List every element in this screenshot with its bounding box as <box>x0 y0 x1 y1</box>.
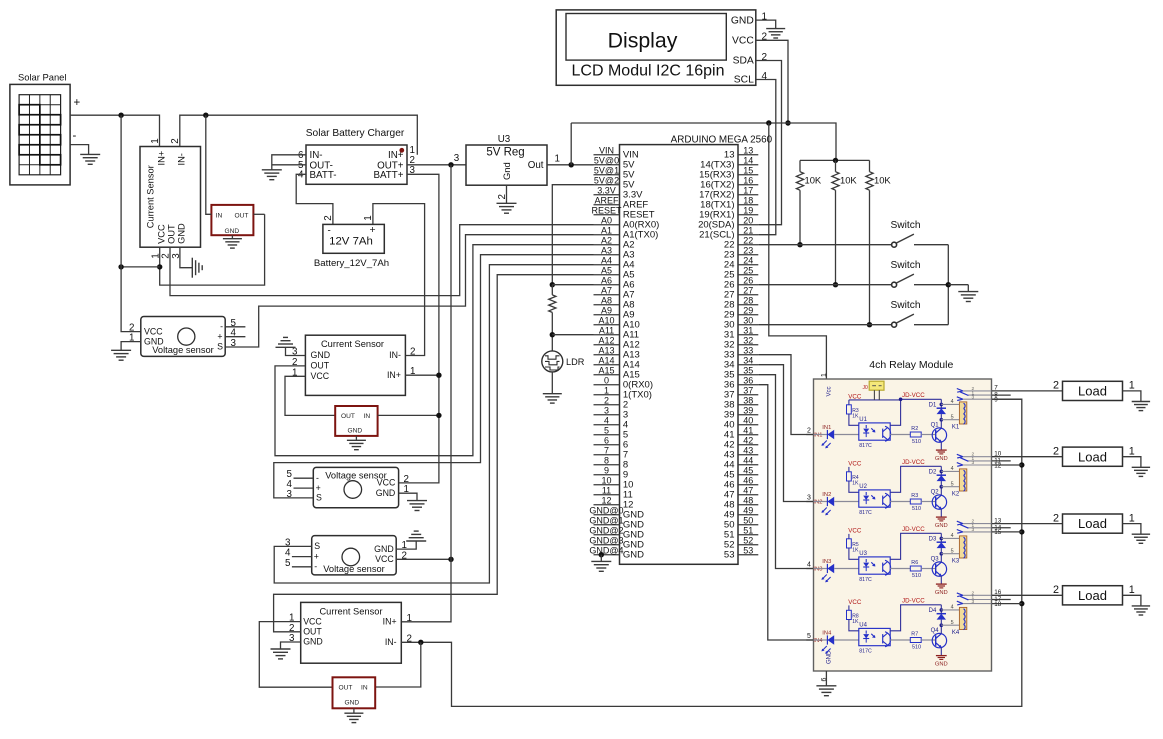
ground load3 <box>1132 533 1150 535</box>
diode D1 <box>929 403 946 420</box>
svg-text:Display: Display <box>608 28 678 52</box>
svg-text:A7: A7 <box>601 285 612 295</box>
wire 5V to relay module Vcc <box>769 123 827 379</box>
pin 5 (arduino left) <box>594 434 620 436</box>
wire pin34 to relay IN2 <box>758 365 813 502</box>
wire divider top to resistor <box>551 285 553 295</box>
svg-text:GND: GND <box>623 550 644 561</box>
svg-text:A15: A15 <box>598 365 614 375</box>
wire pin33 to relay IN1 <box>758 355 813 435</box>
svg-text:8: 8 <box>604 455 609 465</box>
pin 43 (arduino right) <box>738 454 758 456</box>
svg-text:5: 5 <box>285 558 291 569</box>
node rail to shunt-bridge IN <box>203 113 208 118</box>
pin 42 (arduino right) <box>738 444 758 446</box>
svg-text:10: 10 <box>601 475 611 485</box>
relay coil K4 <box>952 607 967 636</box>
svg-text:2: 2 <box>410 347 415 358</box>
wire CS1 OUT to A0 <box>170 225 594 296</box>
svg-text:510: 510 <box>912 644 921 650</box>
svg-text:+: + <box>370 225 376 236</box>
pin stub VS3 5 <box>292 566 312 568</box>
wire CS2 GND to inverted ground <box>286 347 306 355</box>
node switch rail <box>946 282 951 287</box>
pin stub VS3 4 <box>292 556 312 558</box>
svg-text:Switch: Switch <box>890 260 920 271</box>
svg-text:Q3: Q3 <box>931 556 940 562</box>
svg-text:26: 26 <box>743 275 753 285</box>
svg-text:VIN: VIN <box>599 145 614 155</box>
pin GND@0 (arduino left) <box>594 514 620 516</box>
pin GND@2 (arduino left) <box>594 534 620 536</box>
svg-text:1: 1 <box>821 373 828 377</box>
pin 12 (arduino left) <box>594 504 620 506</box>
svg-text:BATT+: BATT+ <box>373 170 403 181</box>
svg-text:39: 39 <box>743 405 753 415</box>
wire VS1 VCC tap <box>121 266 160 268</box>
svg-text:18: 18 <box>994 601 1002 608</box>
node reg out 5V <box>569 162 574 167</box>
relay K2 contact set <box>957 452 992 467</box>
svg-text:GND: GND <box>731 15 754 26</box>
svg-text:JD-VCC: JD-VCC <box>902 459 925 466</box>
svg-text:1K: 1K <box>852 548 859 554</box>
svg-text:3.3V: 3.3V <box>597 185 616 195</box>
svg-text:2: 2 <box>1053 446 1059 458</box>
node charger OUT+ / reg input <box>448 162 453 167</box>
node coil pin4 junction <box>940 537 944 541</box>
ground arduino <box>591 560 611 562</box>
svg-text:GND: GND <box>935 523 948 529</box>
pin 34 (arduino right) <box>738 364 758 366</box>
node ground bus relay K2 contact <box>1019 462 1024 467</box>
wire coil pin 5 <box>941 553 959 555</box>
pin 3.3V (arduino left) <box>594 194 620 196</box>
svg-text:IN4: IN4 <box>813 638 823 644</box>
wire VS3 GND to inverted ground <box>396 541 416 549</box>
resistor R4 1K <box>847 467 860 487</box>
wire display SCL to pin21 <box>756 80 776 235</box>
wire VS2 GND to ground <box>399 493 417 500</box>
svg-text:U1: U1 <box>859 417 867 423</box>
node ground bus relay K3 contact <box>1019 529 1024 534</box>
svg-text:IN: IN <box>361 685 368 692</box>
svg-text:A10: A10 <box>598 315 614 325</box>
svg-text:IN2: IN2 <box>813 499 822 505</box>
svg-text:IN1: IN1 <box>813 432 822 438</box>
svg-text:12V 7Ah: 12V 7Ah <box>329 236 373 248</box>
wire R5 to optocoupler <box>849 548 859 559</box>
svg-text:38: 38 <box>743 395 753 405</box>
pin 31 (arduino right) <box>738 334 758 336</box>
svg-text:29: 29 <box>743 305 753 315</box>
node JD-VCC jumper <box>899 398 903 402</box>
svg-text:GND: GND <box>348 427 363 434</box>
optocoupler U4 817C <box>859 623 891 655</box>
svg-text:5: 5 <box>604 425 609 435</box>
svg-text:47: 47 <box>743 485 753 495</box>
transistor Q3 <box>931 556 947 576</box>
wire charger BATT+ riser to VS2 VCC <box>399 174 439 483</box>
voltage sensor U-VS3 (load) <box>312 536 397 575</box>
pin 51 (arduino right) <box>738 534 758 536</box>
svg-text:GND: GND <box>225 228 240 235</box>
svg-text:13: 13 <box>743 145 753 155</box>
pin A8 (arduino left) <box>594 304 620 306</box>
svg-text:510: 510 <box>912 506 921 512</box>
svg-text:5V Reg: 5V Reg <box>486 147 524 159</box>
svg-text:IN-: IN- <box>385 637 397 647</box>
pin GND@1 (arduino left) <box>594 524 620 526</box>
node R2 to pin wire <box>833 282 838 287</box>
svg-text:JD-VCC: JD-VCC <box>902 598 925 605</box>
pin 4 (arduino left) <box>594 424 620 426</box>
relay coil K1 <box>952 402 967 431</box>
pin stub VS2 4 <box>294 487 314 489</box>
svg-text:U3: U3 <box>498 134 511 145</box>
svg-text:3: 3 <box>807 495 811 502</box>
svg-text:GND@3: GND@3 <box>589 535 623 545</box>
svg-text:GND@0: GND@0 <box>589 505 623 515</box>
svg-text:K4: K4 <box>952 630 960 636</box>
ground LDR <box>543 393 562 395</box>
svg-text:15: 15 <box>743 165 753 175</box>
svg-text:GND: GND <box>345 700 360 707</box>
ground BR1 <box>223 238 242 240</box>
svg-text:IN+: IN+ <box>383 617 397 627</box>
svg-text:A3: A3 <box>601 245 612 255</box>
svg-text:D4: D4 <box>929 608 937 614</box>
svg-text:GND@4: GND@4 <box>589 545 623 555</box>
svg-text:IN+: IN+ <box>156 151 166 166</box>
ground load4 <box>1132 605 1150 607</box>
optocoupler U3 817C <box>859 551 891 583</box>
svg-text:2: 2 <box>170 138 181 143</box>
led IN1 indicator <box>814 425 859 449</box>
voltage sensor U-VS2 (battery) <box>313 467 398 507</box>
node coil pin5 junction <box>940 623 944 627</box>
pin A0 (arduino left) <box>594 224 620 226</box>
wire optocoupler out to R7 <box>890 639 910 641</box>
wire coil pin 5 <box>941 419 959 421</box>
svg-text:Q2: Q2 <box>931 489 940 495</box>
wire pullup rail <box>800 159 870 161</box>
svg-text:52: 52 <box>743 535 753 545</box>
svg-text:20: 20 <box>743 215 753 225</box>
svg-text:K3: K3 <box>952 559 960 565</box>
ground relay module <box>816 685 836 687</box>
svg-text:Load: Load <box>1078 384 1107 399</box>
node display VCC on 5V rail <box>785 120 790 125</box>
wire reg-input riser to CS4 IN+ <box>401 165 451 622</box>
wire optocoupler to JD-VCC rail <box>890 399 941 425</box>
resistor R-LDR <box>549 295 556 313</box>
pin 22 (arduino right) <box>738 244 758 246</box>
wire R8 to optocoupler <box>849 620 859 631</box>
svg-text:41: 41 <box>743 425 753 435</box>
svg-text:OUT: OUT <box>167 224 177 244</box>
svg-text:34: 34 <box>743 355 753 365</box>
svg-text:D3: D3 <box>929 537 937 543</box>
svg-text:45: 45 <box>743 465 753 475</box>
node divider top / A6 <box>550 282 555 287</box>
pin 40 (arduino right) <box>738 424 758 426</box>
solar battery charger U2 <box>306 128 407 184</box>
svg-text:U3: U3 <box>859 551 867 557</box>
svg-text:D2: D2 <box>929 470 937 476</box>
svg-text:2: 2 <box>1053 380 1059 392</box>
svg-text:IN: IN <box>364 413 371 420</box>
voltage regulator U3 5V Reg <box>466 134 547 185</box>
pin A13 (arduino left) <box>594 354 620 356</box>
wire A6 tap <box>552 284 593 286</box>
svg-text:17: 17 <box>743 185 753 195</box>
svg-text:GND: GND <box>177 223 187 244</box>
wire reg Gnd pin 2 <box>506 185 508 203</box>
svg-text:2: 2 <box>807 428 811 435</box>
svg-text:4: 4 <box>298 170 304 181</box>
relay channel input pin 3 (IN2) <box>806 501 813 503</box>
svg-text:VCC: VCC <box>144 326 163 336</box>
resistor R7 510 <box>910 632 921 651</box>
wire relay GND to ground <box>825 671 827 686</box>
wire BR2 GND <box>355 436 357 440</box>
svg-text:33: 33 <box>743 345 753 355</box>
svg-text:1: 1 <box>1129 446 1135 458</box>
pin 19 (arduino right) <box>738 214 758 216</box>
pin 28 (arduino right) <box>738 304 758 306</box>
svg-text:VCC: VCC <box>732 36 754 47</box>
pin stubs relay outputs 7 8 9 <box>992 385 1022 404</box>
wire rail to BR1 IN <box>206 115 212 214</box>
ground 5V reg <box>497 202 517 204</box>
wire battery plus rail <box>373 204 425 356</box>
node on solar-plus riser <box>118 264 123 269</box>
svg-text:4: 4 <box>807 562 811 569</box>
svg-text:SDA: SDA <box>733 56 754 67</box>
svg-text:510: 510 <box>912 573 921 579</box>
node coil pin5 junction <box>940 418 944 422</box>
pin stubs relay outputs 13 14 15 <box>992 517 1022 536</box>
wire emitter to GND <box>940 576 942 584</box>
svg-text:2: 2 <box>604 395 609 405</box>
svg-text:OUT: OUT <box>341 413 355 420</box>
pin stub VS1 5 <box>225 326 245 328</box>
wire optocoupler out to R3 <box>890 501 910 503</box>
svg-text:-: - <box>220 322 223 332</box>
ground display <box>766 28 785 30</box>
svg-text:1: 1 <box>1129 380 1135 392</box>
resistor R2 510 <box>910 426 921 445</box>
svg-text:Voltage sensor: Voltage sensor <box>152 345 214 355</box>
svg-text:5V@2: 5V@2 <box>594 175 619 185</box>
pin A7 (arduino left) <box>594 294 620 296</box>
node CS1 VCC / VS1 VCC tie <box>157 264 162 269</box>
wire load3 to ground <box>1123 524 1141 535</box>
svg-text:VCC: VCC <box>303 616 322 626</box>
svg-text:LCD Modul I2C 16pin: LCD Modul I2C 16pin <box>572 63 725 80</box>
svg-text:Q4: Q4 <box>931 628 940 634</box>
svg-text:OUT: OUT <box>311 361 330 371</box>
svg-text:2: 2 <box>762 52 768 63</box>
svg-text:5: 5 <box>807 633 811 640</box>
wire 5V@2 to LDR divider <box>552 185 593 285</box>
wire CS4 IN- to ground bus <box>401 399 1022 706</box>
load LD1 <box>992 381 1123 400</box>
wire coil pin 4 <box>941 470 959 472</box>
svg-text:K1: K1 <box>952 425 960 431</box>
svg-text:3: 3 <box>972 599 975 605</box>
pin 38 (arduino right) <box>738 404 758 406</box>
ground load2 <box>1132 466 1150 468</box>
ground VS3 (inverted) <box>406 540 426 542</box>
svg-text:2: 2 <box>762 32 768 43</box>
ground BR2 <box>347 439 366 441</box>
node R1 to pin wire <box>797 242 802 247</box>
svg-text:IN: IN <box>216 212 223 219</box>
svg-text:0: 0 <box>604 375 609 385</box>
pin 5V@0 (arduino left) <box>594 164 620 166</box>
pin 9 (arduino left) <box>594 474 620 476</box>
pin 39 (arduino right) <box>738 414 758 416</box>
ground transistor Q3 (red) <box>935 584 948 596</box>
wire collector to coil <box>940 554 942 563</box>
svg-text:Gnd: Gnd <box>501 162 512 180</box>
wire VS1 GND to ground <box>121 342 141 351</box>
node coil pin4 junction <box>940 403 944 407</box>
svg-text:Current Sensor: Current Sensor <box>319 606 382 616</box>
wire VS3 VCC to 5V riser <box>396 558 451 560</box>
pin 37 (arduino right) <box>738 394 758 396</box>
svg-text:Switch: Switch <box>890 300 920 311</box>
pin 52 (arduino right) <box>738 544 758 546</box>
svg-text:S: S <box>316 493 322 503</box>
svg-text:7: 7 <box>604 445 609 455</box>
pin 48 (arduino right) <box>738 504 758 506</box>
svg-text:A11: A11 <box>599 325 614 335</box>
svg-text:28: 28 <box>743 295 753 305</box>
wire CS2 OUT to A2 <box>275 245 594 456</box>
wire solar panel minus to ground <box>70 145 89 155</box>
wire CS4 GND to ground <box>281 642 301 649</box>
pin 15 (arduino right) <box>738 174 758 176</box>
svg-text:GND: GND <box>311 350 331 360</box>
pin RESET (arduino left) <box>594 214 620 216</box>
svg-text:1: 1 <box>407 613 412 624</box>
svg-text:23: 23 <box>743 245 753 255</box>
wire optocoupler to JD-VCC rail <box>890 466 941 492</box>
svg-text:16: 16 <box>743 175 753 185</box>
wire optocoupler out to R6 <box>890 568 910 570</box>
svg-text:Current Sensor: Current Sensor <box>145 165 155 228</box>
svg-text:GND: GND <box>376 488 396 498</box>
wire BR1 OUT stub <box>253 213 264 215</box>
node VS3 VCC on reg-input riser <box>448 557 453 562</box>
svg-text:3: 3 <box>972 394 975 400</box>
node ground bus relay K4 contact <box>1019 601 1024 606</box>
pin 3 (arduino left) <box>594 414 620 416</box>
svg-text:GND@2: GND@2 <box>589 525 623 535</box>
svg-text:6: 6 <box>604 435 609 445</box>
bridge module BR1 (red box IN/OUT/GND) <box>211 205 253 235</box>
wire VS2 S to A3 <box>274 255 594 498</box>
pin 17 (arduino right) <box>738 194 758 196</box>
svg-text:1: 1 <box>150 138 161 143</box>
wire optocoupler to JD-VCC rail <box>890 533 941 559</box>
svg-text:BATT-: BATT- <box>310 170 337 181</box>
pin 26 (arduino right) <box>738 284 758 286</box>
svg-text:OUT: OUT <box>339 685 353 692</box>
svg-text:10K: 10K <box>874 175 891 186</box>
pin 41 (arduino right) <box>738 434 758 436</box>
svg-text:Current Sensor: Current Sensor <box>321 339 384 349</box>
node CS2 IN+ on riser <box>436 373 441 378</box>
svg-text:1K: 1K <box>852 414 859 420</box>
svg-text:R2: R2 <box>911 426 918 432</box>
svg-text:48: 48 <box>743 495 753 505</box>
svg-text:32: 32 <box>743 335 753 345</box>
svg-text:Load: Load <box>1078 588 1107 603</box>
ground transistor Q2 (red) <box>935 517 948 529</box>
relay K1 contact set <box>957 386 992 401</box>
svg-text:VCC: VCC <box>848 599 862 606</box>
ground charger input minus <box>262 169 282 171</box>
ground CS4 <box>271 648 291 650</box>
svg-text:VCC: VCC <box>848 528 862 535</box>
svg-text:1: 1 <box>363 215 374 220</box>
svg-text:510: 510 <box>912 439 921 445</box>
wire coil pin 5 <box>941 624 959 626</box>
svg-text:VCC: VCC <box>311 371 330 381</box>
wire solar plus rail (current sensor IN- to charger IN+) <box>180 115 417 155</box>
svg-text:-: - <box>73 130 77 142</box>
resistor R3 10K <box>866 160 892 324</box>
led IN3 indicator <box>814 559 859 583</box>
pin VIN (arduino left) <box>594 154 620 156</box>
svg-text:2: 2 <box>1053 512 1059 524</box>
pin 24 (arduino right) <box>738 264 758 266</box>
optocoupler U1 817C <box>859 417 891 449</box>
pin A11 (arduino left) <box>594 334 620 336</box>
svg-text:A8: A8 <box>601 295 612 305</box>
arduino U1 ARDUINO MEGA 2560 <box>620 134 773 564</box>
svg-text:R6: R6 <box>911 560 918 566</box>
relay module U4 4ch Relay Module <box>814 359 992 671</box>
svg-text:JD-VCC: JD-VCC <box>902 392 925 399</box>
wire pin35 to relay IN3 <box>758 375 813 569</box>
wire switch common rail <box>947 245 949 325</box>
wire R7 to transistor base <box>921 639 936 641</box>
pin 7 (arduino left) <box>594 454 620 456</box>
transistor Q2 <box>931 489 947 509</box>
svg-text:10K: 10K <box>805 175 822 186</box>
wire load4 to ground <box>1123 595 1141 606</box>
wire R6 to transistor base <box>921 568 936 570</box>
svg-text:GND: GND <box>935 661 948 667</box>
pin A14 (arduino left) <box>594 364 620 366</box>
pin 8 (arduino left) <box>594 464 620 466</box>
node pullup rail 5V feed <box>833 158 838 163</box>
svg-text:9: 9 <box>994 397 998 404</box>
svg-text:Q1: Q1 <box>931 422 940 428</box>
svg-text:53: 53 <box>724 550 735 561</box>
wire BR4 GND <box>353 708 355 713</box>
pin GND@4 (arduino left) <box>594 554 620 556</box>
svg-text:3: 3 <box>972 460 975 466</box>
pin A6 (arduino left) <box>594 284 620 286</box>
relay coil K3 <box>952 536 967 565</box>
svg-text:R3: R3 <box>911 493 918 499</box>
